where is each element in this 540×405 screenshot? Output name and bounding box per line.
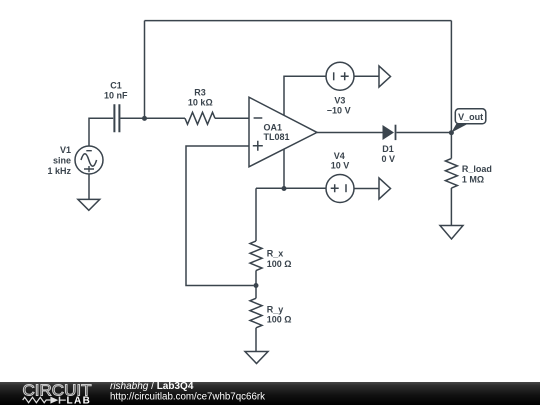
footer bar bbox=[0, 382, 540, 405]
svg-text:C1: C1 bbox=[110, 80, 122, 90]
wire: top feedback rail bbox=[145, 20, 452, 22]
ground: below R_y bbox=[245, 352, 268, 364]
wire: R_y top lead bbox=[255, 286, 257, 299]
label R_load value 1 MΩ bbox=[462, 175, 484, 185]
junction: op-amp V- pin on bottom rail bbox=[282, 186, 287, 191]
label OA1 designator bbox=[264, 122, 283, 132]
junction: V_out node bbox=[449, 130, 454, 135]
junction: C1/R3/feedback node bbox=[142, 116, 147, 121]
capacitor C1 bbox=[114, 104, 119, 132]
label R_y designator bbox=[267, 304, 284, 314]
label V1 value 1 kHz bbox=[47, 166, 71, 176]
svg-text:R_y: R_y bbox=[267, 304, 284, 314]
svg-text:1 MΩ: 1 MΩ bbox=[462, 175, 484, 185]
svg-text:V3: V3 bbox=[334, 96, 345, 106]
wire: V3 to VEE flag bbox=[354, 75, 379, 77]
junction: R_x/R_y node bbox=[254, 283, 259, 288]
voltage source V1 (sine) bbox=[75, 146, 103, 174]
label D1 value 0 V bbox=[381, 154, 395, 164]
label V4 designator bbox=[334, 151, 345, 161]
wire: right feedback drop to V_out node bbox=[450, 21, 452, 133]
svg-text:D1: D1 bbox=[382, 144, 394, 154]
label C1 designator bbox=[110, 80, 122, 90]
footer text: schematic URL bbox=[110, 391, 265, 402]
diode D1 bbox=[383, 125, 396, 140]
svg-text:sine: sine bbox=[53, 156, 71, 166]
net flag at V4 bbox=[379, 178, 391, 199]
svg-text:0 V: 0 V bbox=[381, 154, 395, 164]
label R3 designator bbox=[194, 88, 206, 98]
svg-text:R_load: R_load bbox=[462, 164, 492, 174]
net flag at V3 bbox=[379, 66, 391, 87]
wire: V4 to VCC flag bbox=[354, 188, 379, 190]
label V3 value -10 V bbox=[327, 105, 351, 115]
resistor R_y bbox=[250, 298, 262, 328]
voltage source V3 bbox=[326, 62, 354, 90]
svg-text:100 Ω: 100 Ω bbox=[267, 315, 292, 325]
node V_out flag bbox=[451, 109, 485, 133]
svg-text:V_out: V_out bbox=[458, 112, 483, 122]
resistor R_x bbox=[250, 241, 262, 271]
label R_y value 100 Ω bbox=[267, 315, 292, 325]
wire: R3 to op-amp inverting input bbox=[215, 117, 250, 119]
wire: C1 right plate to R3 bbox=[120, 117, 185, 119]
footer text: author / title bbox=[110, 381, 194, 392]
label V4 value 10 V bbox=[331, 160, 350, 170]
label R_load designator bbox=[462, 164, 492, 174]
svg-text:rishabhg / Lab3Q4: rishabhg / Lab3Q4 bbox=[110, 381, 194, 392]
label R_x designator bbox=[267, 248, 284, 258]
svg-text:10 kΩ: 10 kΩ bbox=[188, 98, 213, 108]
wire: op-amp V- pin down to bottom rail bbox=[283, 149, 285, 188]
wire: R_x bottom lead bbox=[255, 271, 257, 286]
resistor R_load bbox=[445, 159, 457, 189]
op-amp OA1 TL081 bbox=[249, 97, 317, 167]
svg-text:100 Ω: 100 Ω bbox=[267, 259, 292, 269]
wire: R_y bottom lead to ground bbox=[255, 328, 257, 352]
svg-text:OA1: OA1 bbox=[264, 122, 283, 132]
wire: op-amp non-inverting input loop to R_x/R_y node bbox=[186, 146, 254, 286]
wire: op-amp output to D1 anode bbox=[317, 132, 383, 134]
wire: V1 top lead to C1 left plate bbox=[89, 118, 113, 146]
wire: R_x top lead bbox=[255, 188, 257, 241]
svg-text:R_x: R_x bbox=[267, 248, 284, 258]
label R3 value 10 kΩ bbox=[188, 98, 213, 108]
label V3 designator bbox=[334, 96, 345, 106]
voltage source V4 bbox=[326, 175, 354, 203]
svg-text:1 kHz: 1 kHz bbox=[47, 166, 71, 176]
ground: below V1 bbox=[78, 199, 100, 210]
label V1 type sine bbox=[53, 156, 71, 166]
wire: left feedback drop to C1/R3 node bbox=[144, 21, 146, 119]
svg-text:LAB: LAB bbox=[67, 395, 92, 405]
svg-text:TL081: TL081 bbox=[264, 132, 290, 142]
svg-text:V1: V1 bbox=[60, 145, 71, 155]
label C1 value 10 nF bbox=[104, 91, 128, 101]
svg-text:http://circuitlab.com/ce7whb7q: http://circuitlab.com/ce7whb7qc66rk bbox=[110, 391, 265, 402]
svg-text:10 nF: 10 nF bbox=[104, 91, 128, 101]
CircuitLab logo wordmark bbox=[23, 383, 92, 405]
svg-text:V4: V4 bbox=[334, 151, 345, 161]
resistor R3 bbox=[185, 112, 215, 124]
wire: bottom rail from R_x top to V4 bbox=[256, 187, 326, 189]
label OA1 part TL081 bbox=[264, 132, 290, 142]
svg-text:−10 V: −10 V bbox=[327, 105, 351, 115]
wire: R_load bottom lead to ground bbox=[450, 188, 452, 226]
wire: V1 bottom lead to ground bbox=[88, 174, 90, 199]
wire: D1 cathode to V_out node bbox=[397, 132, 452, 134]
svg-text:R3: R3 bbox=[194, 88, 206, 98]
label V1 designator bbox=[60, 145, 71, 155]
label V_out bbox=[458, 112, 483, 122]
label R_x value 100 Ω bbox=[267, 259, 292, 269]
ground: below R_load bbox=[440, 226, 463, 240]
wire: op-amp V+ pin to V3 bbox=[284, 76, 326, 115]
label D1 designator bbox=[382, 144, 394, 154]
wire: R_load top lead bbox=[450, 133, 452, 159]
svg-text:10 V: 10 V bbox=[331, 160, 350, 170]
